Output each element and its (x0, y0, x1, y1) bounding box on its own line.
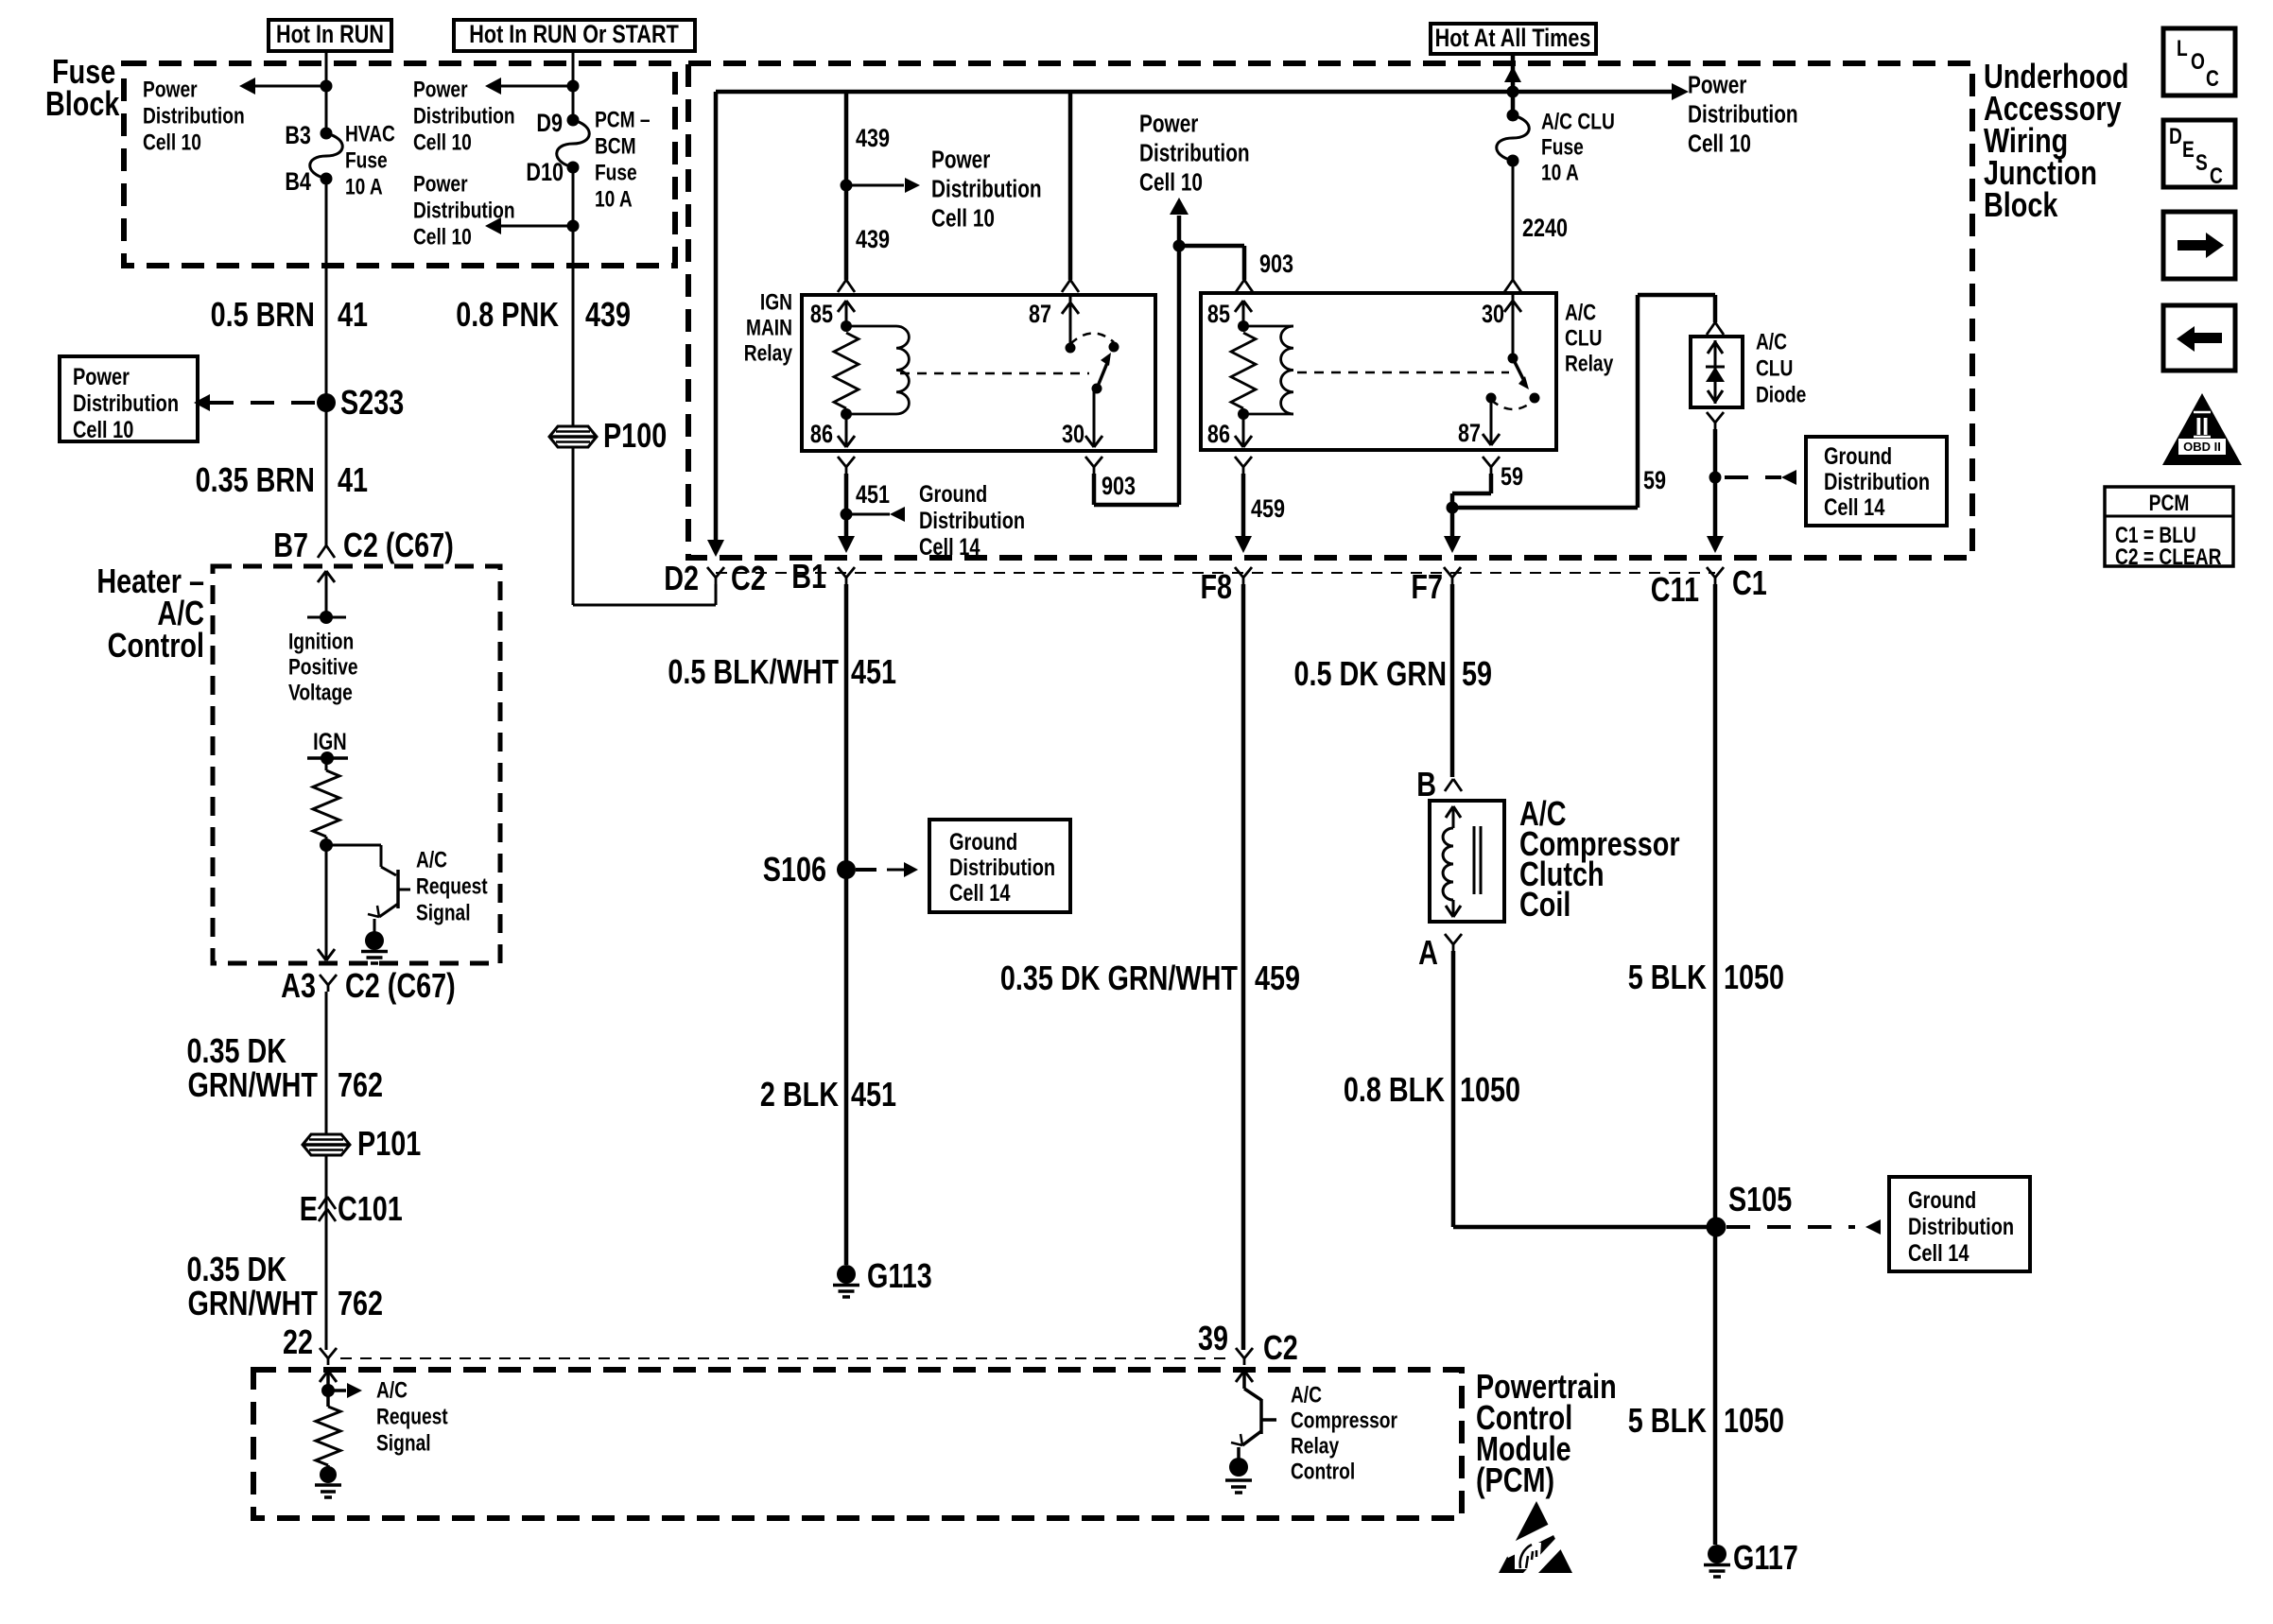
svg-text:86: 86 (810, 421, 833, 449)
svg-text:Diode: Diode (1756, 381, 1806, 407)
svg-text:C: C (2206, 65, 2219, 92)
svg-text:0.35 DK: 0.35 DK (186, 1250, 286, 1288)
svg-text:Fuse: Fuse (345, 147, 388, 173)
svg-text:Cell 10: Cell 10 (143, 129, 201, 155)
svg-text:D10: D10 (526, 159, 564, 187)
svg-text:Ground: Ground (949, 829, 1017, 855)
svg-text:Cell 10: Cell 10 (931, 205, 995, 233)
svg-text:Relay: Relay (1291, 1432, 1339, 1459)
svg-text:A/C: A/C (1756, 328, 1787, 354)
svg-text:451: 451 (851, 1075, 896, 1114)
svg-text:C101: C101 (338, 1189, 403, 1228)
svg-text:87: 87 (1029, 301, 1051, 329)
svg-text:OBD II: OBD II (2183, 440, 2221, 454)
svg-text:762: 762 (338, 1065, 383, 1104)
svg-text:Signal: Signal (416, 899, 471, 925)
svg-text:0.5 BRN: 0.5 BRN (211, 295, 315, 334)
svg-text:439: 439 (856, 226, 890, 254)
svg-text:459: 459 (1255, 959, 1300, 997)
svg-text:E: E (300, 1189, 318, 1228)
svg-text:GRN/WHT: GRN/WHT (188, 1284, 319, 1322)
svg-text:451: 451 (851, 652, 896, 691)
svg-text:D9: D9 (536, 110, 563, 138)
svg-text:10 A: 10 A (595, 185, 633, 212)
svg-text:Distribution: Distribution (1688, 101, 1798, 129)
svg-text:Power: Power (413, 76, 468, 102)
svg-text:459: 459 (1251, 495, 1285, 524)
svg-text:86: 86 (1207, 421, 1230, 449)
svg-text:C1: C1 (1732, 563, 1767, 602)
svg-text:A/C: A/C (1565, 299, 1596, 325)
svg-text:30: 30 (1062, 421, 1084, 449)
svg-text:Power: Power (931, 147, 990, 174)
svg-text:GRN/WHT: GRN/WHT (188, 1065, 319, 1104)
svg-text:Coil: Coil (1519, 885, 1570, 924)
svg-text:A/C: A/C (376, 1376, 408, 1403)
svg-text:30: 30 (1482, 301, 1504, 329)
svg-text:B3: B3 (285, 122, 311, 150)
svg-text:D: D (2169, 123, 2182, 149)
svg-text:Ground: Ground (1908, 1187, 1976, 1214)
svg-text:0.5 DK GRN: 0.5 DK GRN (1293, 654, 1447, 693)
svg-text:Cell 14: Cell 14 (919, 534, 980, 561)
svg-text:Distribution: Distribution (919, 508, 1025, 534)
svg-text:Block: Block (45, 84, 120, 123)
svg-text:Hot At All Times: Hot At All Times (1435, 25, 1591, 53)
svg-text:Power: Power (73, 364, 130, 390)
svg-text:59: 59 (1643, 467, 1666, 495)
svg-text:Compressor: Compressor (1291, 1407, 1398, 1433)
svg-text:A/C: A/C (1291, 1381, 1322, 1408)
svg-text:41: 41 (338, 295, 368, 334)
svg-text:Cell 10: Cell 10 (73, 417, 133, 443)
svg-text:PCM: PCM (2149, 490, 2190, 516)
svg-text:CLU: CLU (1565, 324, 1602, 351)
svg-text:10 A: 10 A (1541, 159, 1579, 185)
svg-text:451: 451 (856, 481, 890, 510)
svg-text:Distribution: Distribution (1139, 140, 1250, 167)
svg-text:F7: F7 (1411, 567, 1443, 606)
svg-text:Hot In RUN: Hot In RUN (276, 21, 384, 49)
svg-text:CLU: CLU (1756, 354, 1793, 381)
svg-text:0.35 DK GRN/WHT: 0.35 DK GRN/WHT (1000, 959, 1238, 997)
svg-text:1050: 1050 (1724, 958, 1784, 996)
svg-text:B: B (1416, 765, 1436, 803)
svg-text:Ignition: Ignition (288, 628, 354, 654)
svg-text:Signal: Signal (376, 1429, 431, 1456)
svg-text:Distribution: Distribution (73, 390, 179, 417)
svg-text:Distribution: Distribution (949, 855, 1055, 881)
svg-text:Power: Power (413, 170, 468, 197)
svg-text:439: 439 (856, 125, 890, 153)
svg-text:C11: C11 (1651, 570, 1699, 609)
svg-text:Fuse: Fuse (595, 159, 637, 185)
svg-text:Block: Block (1984, 185, 2058, 224)
svg-text:Cell 14: Cell 14 (949, 880, 1011, 907)
svg-text:G117: G117 (1733, 1538, 1798, 1577)
svg-text:Cell 10: Cell 10 (1139, 169, 1203, 197)
svg-text:5 BLK: 5 BLK (1628, 958, 1708, 996)
svg-text:0.35 BRN: 0.35 BRN (196, 460, 315, 499)
svg-text:0.8 PNK: 0.8 PNK (456, 295, 559, 334)
svg-text:Voltage: Voltage (288, 679, 353, 705)
svg-text:C2 = CLEAR: C2 = CLEAR (2115, 544, 2222, 570)
svg-text:Power: Power (1139, 111, 1198, 138)
svg-text:22: 22 (283, 1322, 313, 1361)
svg-text:Fuse: Fuse (1541, 133, 1584, 160)
svg-text:0.8 BLK: 0.8 BLK (1344, 1070, 1446, 1109)
svg-text:IGN: IGN (313, 729, 347, 755)
svg-text:C: C (2210, 163, 2223, 189)
svg-text:Distribution: Distribution (931, 176, 1042, 203)
svg-text:2240: 2240 (1522, 215, 1568, 243)
svg-text:85: 85 (810, 301, 833, 329)
svg-text:39: 39 (1198, 1319, 1228, 1357)
svg-text:S105: S105 (1728, 1180, 1792, 1218)
svg-text:Distribution: Distribution (1908, 1214, 2014, 1240)
svg-text:B4: B4 (285, 168, 311, 197)
svg-text:762: 762 (338, 1284, 383, 1322)
svg-text:Control: Control (1291, 1458, 1355, 1484)
svg-text:C2: C2 (1263, 1328, 1298, 1367)
svg-text:Power: Power (143, 76, 198, 102)
svg-text:5 BLK: 5 BLK (1628, 1401, 1708, 1440)
svg-text:Distribution: Distribution (413, 197, 515, 223)
svg-text:B1: B1 (791, 557, 826, 596)
svg-text:Distribution: Distribution (413, 102, 515, 129)
svg-text:IGN: IGN (760, 288, 792, 315)
svg-text:Ground: Ground (1824, 443, 1892, 470)
svg-text:A/C CLU: A/C CLU (1541, 108, 1615, 134)
svg-text:(PCM): (PCM) (1476, 1460, 1554, 1499)
svg-text:Distribution: Distribution (1824, 469, 1930, 495)
svg-text:A3: A3 (281, 966, 316, 1005)
svg-text:0.35 DK: 0.35 DK (186, 1031, 286, 1070)
svg-text:Cell 10: Cell 10 (1688, 130, 1751, 158)
svg-text:Control: Control (108, 626, 204, 665)
svg-text:G113: G113 (867, 1256, 932, 1295)
svg-text:A/C: A/C (416, 846, 447, 872)
svg-text:PCM –: PCM – (595, 106, 651, 132)
svg-text:P100: P100 (603, 416, 667, 455)
svg-text:Hot In RUN Or START: Hot In RUN Or START (469, 21, 679, 49)
svg-text:Ground: Ground (919, 481, 987, 508)
svg-text:S: S (2195, 149, 2208, 176)
svg-text:Request: Request (376, 1403, 448, 1429)
svg-text:Power: Power (1688, 72, 1746, 99)
svg-text:Cell 10: Cell 10 (413, 129, 472, 155)
svg-text:41: 41 (338, 460, 368, 499)
svg-text:0.5 BLK/WHT: 0.5 BLK/WHT (668, 652, 839, 691)
svg-text:MAIN: MAIN (746, 314, 792, 340)
svg-text:59: 59 (1501, 463, 1523, 492)
svg-text:903: 903 (1102, 473, 1136, 501)
svg-text:L: L (2177, 35, 2188, 61)
svg-text:1050: 1050 (1460, 1070, 1520, 1109)
svg-text:C2 (C67): C2 (C67) (345, 966, 456, 1005)
svg-text:S106: S106 (763, 850, 826, 889)
svg-text:Relay: Relay (1565, 350, 1613, 376)
svg-text:Cell 14: Cell 14 (1824, 494, 1885, 521)
svg-text:Relay: Relay (744, 339, 792, 366)
svg-text:P101: P101 (357, 1124, 421, 1163)
svg-text:59: 59 (1462, 654, 1492, 693)
svg-text:BCM: BCM (595, 132, 636, 159)
svg-text:O: O (2191, 48, 2205, 75)
svg-text:Request: Request (416, 872, 488, 899)
svg-text:903: 903 (1259, 251, 1293, 279)
svg-text:10 A: 10 A (345, 173, 383, 199)
svg-text:HVAC: HVAC (345, 120, 395, 147)
svg-text:E: E (2182, 136, 2195, 163)
svg-text:Positive: Positive (288, 653, 358, 680)
svg-text:S233: S233 (340, 383, 404, 422)
svg-text:C2: C2 (731, 559, 766, 597)
svg-text:B7: B7 (273, 526, 308, 564)
svg-text:C2 (C67): C2 (C67) (343, 526, 454, 564)
svg-text:Cell 10: Cell 10 (413, 223, 472, 250)
svg-text:Distribution: Distribution (143, 102, 245, 129)
svg-text:85: 85 (1207, 301, 1230, 329)
svg-text:D2: D2 (664, 559, 699, 597)
svg-text:A: A (1418, 933, 1438, 972)
svg-text:1050: 1050 (1724, 1401, 1784, 1440)
svg-text:F8: F8 (1200, 567, 1232, 606)
svg-text:2 BLK: 2 BLK (760, 1075, 840, 1114)
svg-text:439: 439 (585, 295, 631, 334)
svg-text:Cell 14: Cell 14 (1908, 1240, 1969, 1267)
svg-text:87: 87 (1458, 420, 1481, 448)
